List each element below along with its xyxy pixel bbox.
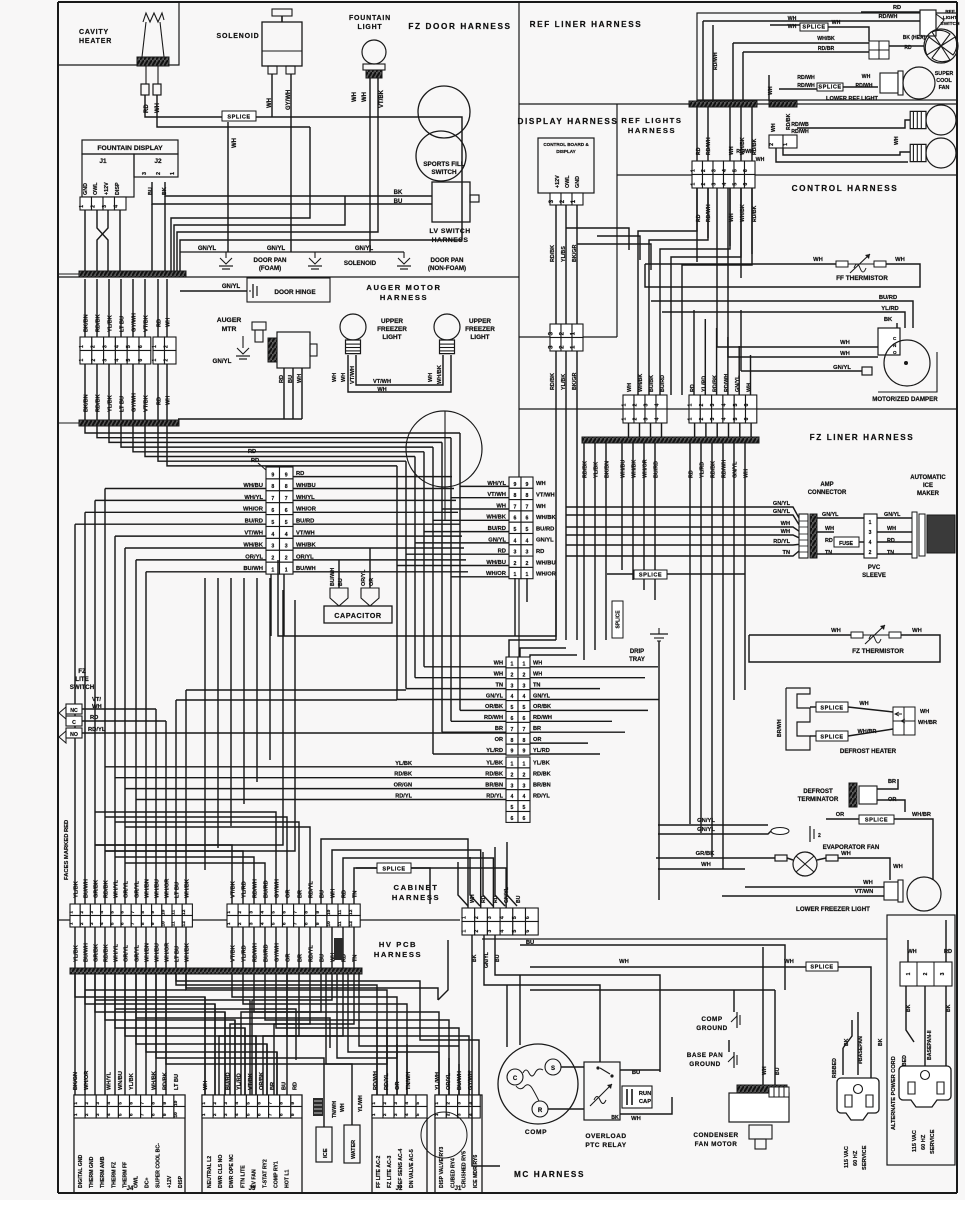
divider ref-liner bottom — [519, 103, 957, 105]
svg-text:DISP: DISP — [178, 1175, 184, 1188]
svg-text:2: 2 — [526, 561, 529, 567]
wire hv maze — [214, 1004, 216, 1095]
wire conn2 feed — [442, 508, 509, 510]
svg-text:YL/BK: YL/BK — [74, 881, 80, 898]
splice ref2 — [817, 83, 843, 91]
wire mc feed — [458, 862, 468, 906]
svg-text:+12V: +12V — [167, 1175, 173, 1188]
svg-text:2: 2 — [514, 561, 517, 567]
apc connector — [900, 962, 952, 986]
svg-text:7: 7 — [293, 911, 299, 914]
svg-text:OVERLOAD: OVERLOAD — [585, 1133, 626, 1140]
wire below left — [104, 927, 106, 968]
wire drop J4 — [165, 974, 167, 1095]
connector J2 box — [372, 1095, 427, 1193]
svg-text:1: 1 — [906, 972, 912, 975]
svg-text:DEFROST HEATER: DEFROST HEATER — [840, 748, 897, 755]
wire drop J4 — [145, 974, 147, 1095]
svg-text:RUN: RUN — [639, 1091, 652, 1097]
svg-text:BU/BK: BU/BK — [649, 375, 655, 392]
svg-text:5: 5 — [117, 1113, 123, 1116]
wire YL/BK below bus — [594, 443, 596, 650]
svg-text:DWR OPE NC: DWR OPE NC — [229, 1154, 235, 1188]
svg-text:RD/WH: RD/WH — [879, 14, 898, 20]
wire splice fz in — [607, 573, 634, 575]
svg-text:2: 2 — [923, 972, 929, 975]
svg-text:FZ DOOR HARNESS: FZ DOOR HARNESS — [408, 22, 511, 31]
svg-text:2: 2 — [84, 1113, 90, 1116]
svg-text:12: 12 — [181, 921, 187, 927]
svg-text:6: 6 — [138, 359, 144, 362]
svg-text:4: 4 — [722, 183, 728, 186]
svg-text:3: 3 — [103, 359, 109, 362]
svg-text:WH: WH — [747, 383, 753, 392]
wire YL/BK long — [105, 766, 506, 768]
wire RD switch — [82, 720, 166, 722]
svg-text:10: 10 — [326, 909, 332, 915]
wire hv maze — [276, 1052, 278, 1095]
splice defrost 2 — [816, 731, 848, 741]
wire long vertical — [145, 572, 147, 904]
svg-text:BU/RD: BU/RD — [879, 295, 897, 301]
svg-text:6: 6 — [282, 911, 288, 914]
FZ thermistor resistor — [851, 625, 901, 644]
wire maze — [75, 974, 205, 1095]
svg-text:WH: WH — [203, 1081, 209, 1090]
svg-text:9: 9 — [271, 472, 274, 478]
svg-text:4: 4 — [106, 1102, 112, 1105]
svg-text:HOT L1: HOT L1 — [285, 1169, 291, 1188]
svg-text:2: 2 — [523, 772, 526, 778]
svg-text:8: 8 — [514, 493, 517, 499]
wire water — [351, 1100, 353, 1125]
wire hv maze — [176, 974, 479, 1095]
wire below left — [185, 927, 187, 968]
svg-text:VT/WH: VT/WH — [536, 493, 555, 499]
svg-text:WH: WH — [907, 949, 916, 955]
wire hv maze — [266, 1044, 268, 1095]
svg-text:GY/WH: GY/WH — [132, 313, 138, 332]
wire splice fz out — [667, 573, 745, 575]
water valve box — [344, 1125, 360, 1163]
svg-text:2: 2 — [445, 1113, 451, 1116]
svg-text:SUPER COOL BC-: SUPER COOL BC- — [156, 1143, 162, 1188]
wire conn1 left — [85, 511, 266, 513]
wire capacitor BU — [338, 560, 340, 588]
wire lf vt — [722, 895, 884, 897]
wire WH splice mc — [530, 966, 806, 968]
wire B to bus — [750, 423, 752, 437]
svg-text:SWITCH: SWITCH — [70, 684, 95, 691]
svg-text:6: 6 — [743, 183, 749, 186]
wire plug1 bk diag — [843, 1020, 852, 1048]
wire im3 — [877, 541, 912, 543]
svg-text:RD/YL: RD/YL — [395, 794, 412, 800]
wire drop — [450, 438, 452, 722]
lower ref light bulb — [880, 67, 935, 99]
svg-text:AUGER: AUGER — [217, 317, 242, 324]
svg-text:YL/RD: YL/RD — [242, 881, 248, 898]
svg-text:6: 6 — [138, 345, 144, 348]
wire RD/WH refl — [707, 107, 709, 161]
svg-text:TN: TN — [533, 682, 540, 688]
svg-text:WH: WH — [428, 373, 434, 382]
svg-text:RD/YL: RD/YL — [88, 727, 106, 733]
wire to conn3 — [460, 709, 506, 711]
svg-text:4: 4 — [234, 1113, 240, 1116]
svg-text:5: 5 — [270, 911, 276, 914]
svg-text:1: 1 — [73, 1102, 79, 1105]
wire conn1 right — [293, 559, 466, 561]
svg-text:7: 7 — [514, 504, 517, 510]
wire maze3 — [241, 974, 321, 1095]
svg-text:GND: GND — [83, 183, 89, 195]
wire RD/YL amp — [566, 543, 799, 546]
svg-text:AMP: AMP — [820, 482, 833, 488]
svg-text:2: 2 — [382, 1102, 388, 1105]
svg-text:LT BU: LT BU — [120, 396, 126, 412]
wire to conn3 — [415, 677, 506, 679]
wire below right — [231, 927, 233, 968]
svg-text:3: 3 — [95, 1102, 101, 1105]
wire A to bus — [628, 423, 630, 437]
svg-text:YL/RD: YL/RD — [881, 306, 898, 312]
wire to conn3 — [433, 753, 506, 755]
wire cfm BU — [774, 990, 776, 1085]
border bottom — [58, 1192, 957, 1194]
wire apc bk1 — [906, 986, 914, 1042]
wire conn3 right — [530, 677, 645, 679]
svg-text:ICE MDR RY6: ICE MDR RY6 — [473, 1155, 479, 1188]
wire lights WH link — [348, 355, 451, 392]
wire long vertical — [84, 512, 86, 904]
stamp circle — [421, 1112, 467, 1158]
wire RD — [157, 279, 159, 337]
svg-text:CAPACITOR: CAPACITOR — [334, 611, 382, 620]
svg-text:LIGHT: LIGHT — [382, 334, 401, 341]
svg-text:10: 10 — [160, 921, 166, 927]
wire BU/RD below bus — [654, 443, 656, 600]
svg-text:(NON-FOAM): (NON-FOAM) — [428, 265, 466, 272]
svg-text:1: 1 — [371, 1113, 377, 1116]
svg-text:2: 2 — [769, 143, 775, 146]
svg-text:BU/WH: BU/WH — [457, 1071, 463, 1090]
wire ev gr — [656, 857, 775, 859]
wire conn3 right — [530, 742, 588, 744]
svg-text:TN: TN — [496, 682, 503, 688]
wire maze — [115, 974, 245, 1095]
svg-text:5: 5 — [109, 922, 115, 925]
svg-text:C: C — [72, 720, 76, 726]
wire VT/BK lower — [144, 364, 146, 420]
auger motor — [252, 322, 317, 368]
svg-text:WH: WH — [895, 257, 905, 263]
wire RD/BK refl — [751, 107, 753, 161]
svg-text:2: 2 — [818, 833, 821, 839]
svg-text:LIGHT: LIGHT — [943, 15, 957, 21]
svg-text:9: 9 — [150, 911, 156, 914]
svg-text:WH: WH — [536, 481, 546, 487]
wire conn3 right — [530, 688, 600, 690]
svg-text:4: 4 — [722, 169, 728, 172]
svg-text:YL/BK: YL/BK — [108, 315, 114, 332]
wire below conn1 a — [270, 574, 272, 636]
svg-text:11: 11 — [171, 909, 177, 914]
svg-text:4: 4 — [468, 1113, 474, 1116]
wire ice — [323, 1095, 325, 1127]
svg-text:OR/YL: OR/YL — [446, 1072, 452, 1090]
svg-text:DISP VALVE RY3: DISP VALVE RY3 — [439, 1147, 445, 1188]
compressor circle — [498, 1044, 578, 1124]
svg-text:4: 4 — [404, 1113, 410, 1116]
LV switch pin — [470, 195, 479, 202]
svg-text:5: 5 — [733, 404, 739, 407]
svg-text:WH: WH — [788, 16, 797, 22]
wire hv maze — [468, 1070, 470, 1095]
wire TN amp — [566, 551, 799, 556]
wire VT/BK to bus — [177, 196, 378, 271]
svg-text:6: 6 — [525, 916, 531, 919]
svg-text:WH: WH — [494, 661, 503, 667]
wire display to conn3 c — [530, 655, 577, 657]
svg-text:TN/WH: TN/WH — [332, 1101, 338, 1118]
svg-text:WH/BK: WH/BK — [151, 1071, 157, 1090]
bus bar ref liner A — [689, 101, 757, 107]
wire conn1 left — [75, 523, 266, 525]
wire cfm WH — [762, 947, 764, 1085]
svg-text:OWL: OWL — [565, 175, 571, 188]
svg-text:GR/BK: GR/BK — [94, 880, 100, 898]
svg-text:FOUNTAIN: FOUNTAIN — [349, 15, 391, 22]
svg-text:WH: WH — [841, 851, 851, 857]
svg-text:RD: RD — [887, 538, 895, 544]
ref light switch — [920, 10, 944, 36]
svg-text:LT BU: LT BU — [120, 316, 126, 332]
svg-text:SPLICE: SPLICE — [820, 734, 843, 740]
wire ev out1 — [817, 858, 826, 860]
wire solenoid GY/WH — [290, 74, 292, 252]
wire amp-ice2 — [817, 531, 834, 533]
wire below left — [124, 927, 126, 968]
wire below right — [242, 927, 244, 968]
wire display — [565, 205, 567, 324]
wire below left — [175, 927, 177, 968]
wire drop J4 — [74, 974, 76, 1095]
capacitor flags — [330, 588, 379, 606]
svg-text:NO: NO — [70, 732, 78, 738]
svg-text:RD: RD — [342, 890, 348, 898]
svg-text:1: 1 — [621, 404, 627, 407]
svg-text:YL/BK: YL/BK — [108, 395, 114, 412]
ref liner box — [697, 13, 957, 100]
solenoid body — [262, 9, 302, 74]
FF thermistor resistor — [836, 254, 886, 273]
svg-text:2: 2 — [511, 672, 514, 678]
svg-text:DOOR PAN: DOOR PAN — [431, 257, 464, 264]
wire J2 BK stub — [164, 196, 166, 210]
connector control A — [621, 395, 667, 423]
wire conn2 feed — [424, 531, 509, 533]
svg-text:WH: WH — [631, 1116, 641, 1122]
svg-text:FREEZER: FREEZER — [377, 326, 407, 333]
wire conn1 right — [293, 571, 468, 573]
svg-text:RD: RD — [536, 549, 544, 555]
wire below left — [145, 927, 147, 968]
svg-text:3: 3 — [526, 550, 529, 556]
wire below left — [165, 927, 167, 968]
wire GY/WH lower — [132, 364, 134, 420]
svg-text:SPORTS FILL: SPORTS FILL — [423, 161, 465, 168]
svg-text:WH: WH — [781, 521, 790, 527]
wire below left — [155, 927, 157, 968]
wire J2 down1 — [151, 210, 153, 271]
svg-text:1: 1 — [170, 172, 176, 175]
svg-text:FOUNTAIN DISPLAY: FOUNTAIN DISPLAY — [97, 145, 163, 152]
wire BU to LV switch — [152, 182, 432, 204]
svg-text:TN: TN — [825, 550, 832, 556]
svg-text:WH/YL: WH/YL — [114, 879, 120, 898]
wire control stair2 — [682, 188, 752, 395]
wire to splice ref2 — [779, 88, 817, 90]
svg-text:5: 5 — [523, 805, 526, 811]
wire WH lower — [166, 364, 168, 420]
svg-text:NC: NC — [70, 708, 78, 714]
svg-text:BK/GN: BK/GN — [73, 1072, 79, 1090]
wire capacitor OR — [369, 548, 371, 588]
svg-text:GN/YL: GN/YL — [267, 246, 286, 252]
wire capacitor loop — [278, 560, 556, 636]
defrost heater coil — [786, 688, 810, 750]
svg-text:FUSE: FUSE — [839, 541, 853, 547]
wire mid vertical 8 — [105, 600, 295, 851]
svg-text:1: 1 — [526, 572, 529, 578]
svg-text:VT/BK: VT/BK — [144, 395, 150, 412]
svg-text:#BASEPAN: #BASEPAN — [858, 1036, 864, 1064]
svg-text:ICE: ICE — [923, 483, 933, 489]
connector J4 pins — [73, 1095, 185, 1118]
wire conn1 left — [105, 488, 266, 490]
wire door hinge — [180, 290, 247, 292]
svg-text:2: 2 — [212, 1113, 218, 1116]
divider control bottom — [519, 408, 957, 410]
wire df1 — [810, 706, 816, 708]
wire mc feed — [470, 857, 480, 906]
svg-text:2: 2 — [91, 359, 97, 362]
svg-text:2: 2 — [271, 556, 274, 562]
wire conn2 feed — [406, 553, 509, 555]
wire WH/BK v — [732, 43, 734, 101]
wire maze3 — [252, 974, 332, 1095]
svg-text:1: 1 — [783, 143, 789, 146]
wire link 176 — [176, 699, 397, 701]
svg-text:2: 2 — [699, 418, 705, 421]
wire J1-2 crossover — [97, 210, 108, 271]
svg-text:WH/BR: WH/BR — [918, 720, 937, 726]
wire im1 — [877, 517, 912, 519]
svg-text:S: S — [551, 1066, 555, 1072]
wire below left — [74, 927, 76, 968]
border right — [956, 2, 958, 1193]
svg-text:WH: WH — [377, 387, 386, 393]
wire below right — [298, 927, 300, 968]
svg-text:WN/BU: WN/BU — [118, 1071, 124, 1090]
svg-text:GN/YL: GN/YL — [773, 509, 791, 515]
drip tray symbol — [650, 628, 668, 641]
wire conn1 right — [293, 511, 458, 513]
svg-text:8: 8 — [304, 911, 310, 914]
svg-text:YL/RD: YL/RD — [486, 748, 503, 754]
svg-text:RD: RD — [825, 538, 833, 544]
evap oval — [771, 828, 789, 835]
wire mc feed — [483, 852, 493, 906]
svg-text:4: 4 — [523, 794, 526, 800]
svg-text:WH: WH — [331, 889, 337, 898]
wire display to conn3 b — [520, 648, 566, 657]
svg-text:BU: BU — [281, 1082, 287, 1090]
wire RD/WH below refl — [707, 188, 709, 238]
terminal WH — [153, 84, 161, 95]
svg-text:60 HZ: 60 HZ — [921, 1134, 927, 1150]
svg-text:BU/RD: BU/RD — [225, 1072, 231, 1090]
svg-text:LOWER REF LIGHT: LOWER REF LIGHT — [826, 96, 878, 102]
svg-text:VT/BK: VT/BK — [248, 1073, 254, 1090]
connector fz liner 9pin C — [506, 657, 530, 755]
evap terminal R — [826, 855, 838, 861]
svg-text:3: 3 — [487, 930, 493, 933]
svg-text:RD/WH: RD/WH — [856, 83, 873, 89]
svg-text:1: 1 — [514, 572, 517, 578]
svg-text:5: 5 — [285, 520, 288, 526]
svg-text:BU/WH: BU/WH — [84, 879, 90, 898]
wire ev in — [787, 858, 793, 860]
wire mid vertical 7 — [95, 590, 283, 845]
svg-text:1: 1 — [523, 762, 526, 768]
wire maze — [95, 974, 225, 1095]
svg-text:6: 6 — [120, 911, 126, 914]
svg-text:6: 6 — [257, 1113, 263, 1116]
wire display lower — [565, 351, 567, 640]
wire hv maze — [458, 1064, 460, 1095]
divider vertical main — [518, 2, 520, 660]
svg-text:YL/BK: YL/BK — [533, 761, 550, 767]
door hinge box — [247, 278, 330, 302]
wire conn3 right — [530, 709, 648, 711]
svg-text:VT/BK: VT/BK — [231, 881, 237, 898]
wire lights VT/WH link — [356, 355, 443, 385]
svg-text:3: 3 — [223, 1113, 229, 1116]
svg-text:GN/YL: GN/YL — [355, 246, 374, 252]
svg-text:GY/WH: GY/WH — [275, 879, 281, 898]
svg-text:THERM GND: THERM GND — [89, 1156, 95, 1188]
wire maze2 — [232, 974, 397, 1095]
svg-text:GN/YL: GN/YL — [697, 827, 715, 833]
wire amp-ice1 — [817, 517, 864, 519]
svg-text:AUGER MOTOR: AUGER MOTOR — [366, 283, 441, 292]
svg-text:2: 2 — [91, 345, 97, 348]
svg-text:GN/YL: GN/YL — [884, 512, 901, 518]
wire below left — [84, 927, 86, 968]
svg-text:WH/BK: WH/BK — [638, 374, 644, 392]
wire B to bus — [739, 423, 741, 437]
wire long vertical — [165, 721, 167, 904]
svg-text:1: 1 — [511, 762, 514, 768]
svg-text:1: 1 — [201, 1113, 207, 1116]
wire mid vertical — [217, 578, 219, 848]
svg-text:4: 4 — [511, 694, 514, 700]
svg-text:7: 7 — [140, 1102, 146, 1105]
svg-text:R: R — [538, 1108, 543, 1114]
wire YL/RD damper — [662, 312, 905, 328]
